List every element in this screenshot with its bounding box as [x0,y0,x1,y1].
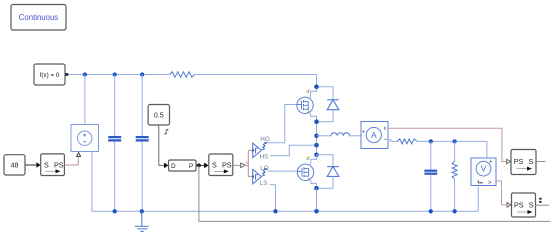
voltage sensor V1 [471,158,496,187]
svg-text:S: S [529,157,534,166]
svg-text:LS: LS [260,180,268,187]
node top-rail junction A [83,72,87,76]
capacitor C1 [108,75,121,212]
svg-text:D: D [171,163,176,170]
powergui block Continuous [11,5,66,31]
PWM generator block D P [169,160,197,171]
node Q2 source junction [314,186,319,191]
ground [135,211,149,231]
converter S PS 2 [209,154,233,176]
diode D2 [317,155,339,188]
current sensor A1 [361,122,388,149]
node midpoint 2 [314,134,319,139]
wire HS to midpoint [270,145,317,156]
svg-text:48: 48 [11,163,19,170]
svg-text:0.5: 0.5 [154,113,164,120]
capacitor C2 [136,75,149,212]
wire Q1 drain stub [311,87,317,98]
wire 0.5 to PWM D input [159,125,169,168]
sample-time badge under 0.5 [164,129,169,135]
red wire driver input split [244,164,248,166]
wire midpoint vertical [316,122,318,155]
capacitor C3 [424,141,437,211]
svg-text:Continuous: Continuous [19,13,59,22]
svg-text:S: S [44,160,49,169]
control port triangle of source [77,153,81,157]
grey tap wire from P down and across bottom [199,165,550,221]
svg-text:PS: PS [514,157,524,166]
wire LO to Q2 gate [267,170,297,172]
MOSFET Q1 [297,97,313,113]
resistor R2 [397,139,417,144]
wire inductor to current sensor [350,135,361,137]
red wire current sensor I output [388,128,507,161]
wire P output with branch dot [196,163,209,169]
wire source bottom to bottom rail [92,152,115,212]
wire Q2 source to bottom rail [316,188,318,211]
wire top rail right segment [194,75,316,87]
node bottom junction R3 [452,209,456,213]
wire Q2 source stub [311,180,317,188]
node output junction 2 [452,139,456,143]
red wire S-PS2 to driver input [233,164,240,166]
MOSFET Q2 [297,164,313,180]
wire current sensor output [388,140,397,142]
wire HO to Q1 gate [267,105,297,143]
wire Q2 drain stub [311,155,317,165]
node bottom rail midpoint [314,209,319,214]
svg-text:V: V [481,165,487,174]
node bottom junction C3 [429,209,433,213]
svg-text:+: + [489,160,493,166]
inductor L1 [331,133,350,136]
gate driver low-side channel [252,165,269,187]
svg-text:f(x) = 0: f(x) = 0 [40,72,60,79]
node output junction 1 [429,139,433,143]
svg-text:d: d [307,156,310,162]
svg-text:d: d [307,89,310,95]
node midpoint 3 [314,143,319,148]
control wire red S-PS1 to source [64,157,78,165]
node midpoint 4 [314,153,319,158]
node bottom junction C2/ground [140,209,144,213]
node bottom junction C1 [113,209,117,213]
top rail wire [85,74,170,76]
red wire V1 output [496,181,507,205]
driver input port triangle [241,163,245,168]
wire LS to bottom rail [270,185,276,212]
wire midpoint to inductor [317,135,332,137]
wire 48 to S-PS1 with arrowhead [25,162,41,168]
svg-text:A: A [371,131,377,140]
svg-text:P: P [189,163,193,170]
bottom rail wire [115,210,479,212]
controlled voltage source U1 [71,125,99,152]
svg-text:HS: HS [260,153,269,160]
resistor R1 [170,72,195,77]
solver block f(x)=0 [34,64,68,85]
svg-text:S: S [529,201,534,210]
wire V1 bottom to rail [477,186,479,212]
node midpoint 1 [314,119,319,124]
wire solver output to top rail [68,74,85,76]
node top-rail junction C [140,72,144,76]
wire Q1 source stub [311,113,317,122]
svg-text:>: > [488,181,492,187]
wire output node rail [417,141,487,158]
converter S PS 1 [41,154,65,176]
svg-text:PS: PS [222,161,232,170]
constant block 48 [4,155,25,175]
svg-text:PS: PS [54,160,64,169]
diode D1 [317,87,339,122]
svg-text:PS: PS [514,201,524,210]
constant block 0.5 [148,105,169,126]
PS S converter upper [507,150,546,175]
node top-rail junction B [113,72,117,76]
svg-text:S: S [212,161,217,170]
node LS bottom junction [273,209,277,213]
PS S converter lower [507,193,549,217]
svg-text:+: + [362,129,366,135]
svg-text:HO: HO [260,136,270,143]
wire source top [84,75,86,125]
node top junction [314,84,319,89]
gate driver high-side channel [252,136,270,161]
resistor R3 [452,141,457,211]
